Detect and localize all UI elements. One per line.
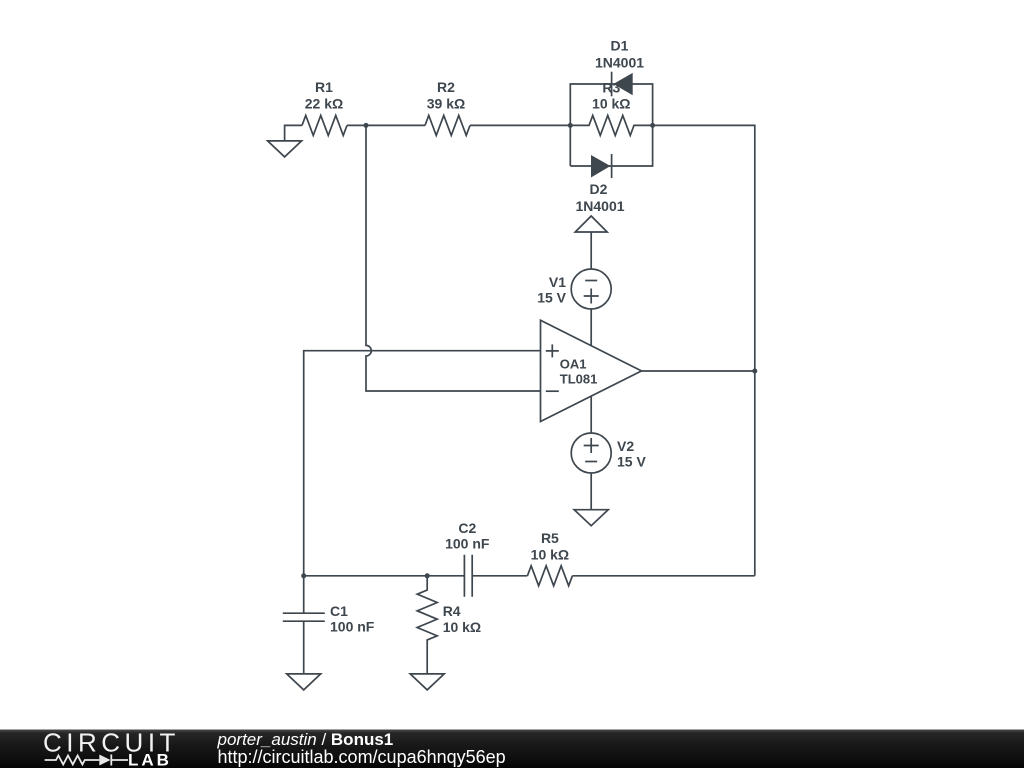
wire parallel box bbox=[570, 84, 652, 166]
svg-text:R2: R2 bbox=[437, 79, 455, 95]
svg-text:39 kΩ: 39 kΩ bbox=[427, 96, 465, 112]
svg-text:100 nF: 100 nF bbox=[330, 619, 375, 635]
ground near R1 bbox=[268, 125, 302, 156]
wire noninverting input bbox=[304, 351, 541, 576]
svg-text:OA1: OA1 bbox=[560, 356, 587, 371]
CircuitLab logo bbox=[43, 728, 180, 768]
wire output bbox=[642, 370, 755, 372]
svg-text:10 kΩ: 10 kΩ bbox=[443, 619, 481, 635]
svg-text:C1: C1 bbox=[330, 603, 348, 619]
svg-text:D2: D2 bbox=[590, 181, 608, 197]
node junction box right bbox=[650, 123, 655, 128]
node A junction bbox=[364, 123, 369, 128]
diode D2 bbox=[575, 154, 624, 214]
wire bbox=[590, 309, 592, 346]
capacitor C2 bbox=[445, 520, 490, 597]
wire bbox=[590, 473, 592, 510]
wire bbox=[470, 124, 570, 126]
resistor R5 bbox=[527, 530, 572, 586]
node output junction bbox=[752, 369, 757, 374]
wire bbox=[572, 575, 754, 577]
node bottom left junction bbox=[301, 573, 306, 578]
footer bar bbox=[0, 730, 1024, 768]
wire bbox=[590, 396, 592, 433]
resistor R1 bbox=[302, 79, 347, 135]
capacitor C1 bbox=[283, 576, 375, 674]
op-amp OA1 bbox=[541, 320, 642, 421]
svg-text:V2: V2 bbox=[617, 438, 634, 454]
svg-text:100 nF: 100 nF bbox=[445, 536, 490, 552]
svg-text:C2: C2 bbox=[458, 520, 476, 536]
resistor R4 bbox=[417, 576, 481, 674]
wire bbox=[347, 124, 425, 126]
node R4 junction bbox=[425, 573, 430, 578]
diode D1 bbox=[595, 38, 644, 97]
svg-text:22 kΩ: 22 kΩ bbox=[305, 96, 343, 112]
svg-text:V1: V1 bbox=[549, 274, 566, 290]
voltage source V1 bbox=[537, 269, 611, 309]
resistor R2 bbox=[425, 79, 470, 135]
svg-text:http://circuitlab.com/cupa6hnq: http://circuitlab.com/cupa6hnqy56ep bbox=[218, 747, 506, 767]
svg-text:10 kΩ: 10 kΩ bbox=[592, 96, 630, 112]
node junction box left bbox=[568, 123, 573, 128]
svg-text:10 kΩ: 10 kΩ bbox=[531, 547, 569, 563]
wire bbox=[472, 575, 527, 577]
ground C1 bbox=[287, 674, 321, 690]
svg-text:15 V: 15 V bbox=[617, 454, 646, 470]
svg-text:D1: D1 bbox=[611, 38, 629, 54]
svg-text:15 V: 15 V bbox=[537, 290, 566, 306]
wire bbox=[590, 232, 592, 269]
svg-text:1N4001: 1N4001 bbox=[595, 55, 644, 71]
svg-text:1N4001: 1N4001 bbox=[575, 198, 624, 214]
wire bottom left bbox=[304, 575, 465, 577]
resistor R3 bbox=[570, 80, 652, 136]
svg-text:R1: R1 bbox=[315, 79, 333, 95]
wire top right bbox=[653, 125, 755, 575]
power VCC triangle bbox=[575, 216, 607, 232]
svg-text:R4: R4 bbox=[443, 603, 461, 619]
ground R4 bbox=[410, 674, 444, 690]
svg-text:LAB: LAB bbox=[128, 751, 172, 768]
wire feedback with hop bbox=[366, 125, 541, 391]
ground V2 bbox=[574, 510, 608, 526]
svg-text:R5: R5 bbox=[541, 530, 559, 546]
voltage source V2 bbox=[571, 433, 646, 473]
svg-text:TL081: TL081 bbox=[560, 371, 598, 386]
